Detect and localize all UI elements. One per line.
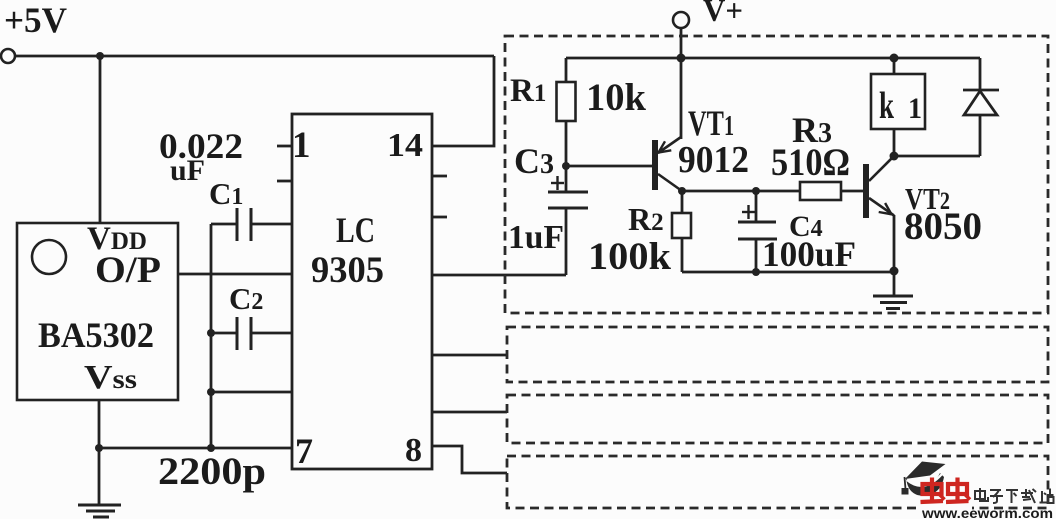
resistor R2 [672,213,691,238]
svg-text:14: 14 [387,127,423,164]
wire diode top [979,58,982,90]
wire BA5302 Vss down [98,400,101,505]
wire O/P to IC [178,273,292,276]
wire R2 bottom [681,238,684,272]
svg-text:uF: uF [170,154,205,187]
svg-text:1uF: 1uF [508,219,564,256]
C4 plus sign [742,205,755,219]
wire C3 bottom down [565,208,568,275]
wire k1 top [893,58,896,74]
svg-text:www.eeworm.com: www.eeworm.com [921,505,1053,519]
pin stub left 2 [277,180,292,183]
wire R2 top [681,191,684,213]
node V+ rail junction [677,54,686,63]
wire pin8 to box4 [432,446,507,473]
svg-text:510Ω: 510Ω [771,141,850,184]
wire collector node to diode [894,155,980,158]
svg-text:8050: 8050 [904,205,982,248]
wire node to IC mid [211,391,292,394]
wire V+ drop to pin14 [432,56,494,146]
terminal V+ [673,12,689,28]
resistor R1 [557,82,576,121]
node 2200p junction [207,444,215,452]
svg-text:9305: 9305 [311,250,384,291]
wire +5V top rail [15,55,494,58]
svg-text:BA5302: BA5302 [38,315,154,355]
wire IC out to C3 node [432,274,566,277]
pin stub right 1 [432,175,447,178]
logo chongchong characters [921,478,971,503]
svg-text:1: 1 [292,125,311,166]
wire R1 top [565,58,568,82]
svg-text:1: 1 [908,92,922,125]
logo white halo [916,498,972,510]
transistor VT1 [652,137,682,191]
ground (VT2) [873,296,913,309]
node VT1 collector junction [678,187,686,195]
ground (BA5302) [78,505,121,517]
terminal +5V [1,49,15,63]
dashed box 2 [507,327,1048,382]
BA5302 box [17,223,178,400]
svg-text:k: k [879,85,895,127]
dashed box 4 [507,456,1048,508]
capacitor C2 [237,317,251,350]
IC LC9305 box [292,114,432,469]
wire BA5302 VDD drop [99,56,102,223]
svg-text:9012: 9012 [678,139,749,181]
node C3 junction [562,162,570,170]
diode VD [963,90,999,115]
node +5V junction [96,52,104,60]
node mid junction [207,388,215,396]
wire VT2 emitter down [893,215,896,296]
wire R3 right to VT2 base [841,190,866,193]
node Vss junction [95,444,103,452]
svg-text:2200p: 2200p [158,450,266,493]
node junction dots [95,52,899,452]
svg-text:V+: V+ [703,0,743,28]
wire VT1 collector node right to R3 [682,190,800,193]
svg-text:LC: LC [336,210,375,250]
capacitor C4 [738,222,777,239]
pin stub right 2 [432,216,447,219]
pin 1 stub [277,145,292,148]
logo graduation cap [902,462,946,496]
wire C1 right [251,223,292,226]
transistor VT2 [863,156,894,218]
node C2 junction [207,329,215,337]
wire C2 left [211,332,237,335]
wire C3 node to VT1 base [566,165,652,168]
dashed main box [505,36,1048,313]
wire C1 left [211,223,237,226]
wire IC out to box3 [432,411,507,414]
wire V+ drop [680,28,683,139]
relay k1 [871,74,925,129]
wire diode bottom [979,115,982,156]
svg-text:100uF: 100uF [762,234,856,274]
wire top rail right [566,57,980,60]
svg-text:10k: 10k [586,76,646,119]
logo site name glyphs [975,488,1054,503]
wire k1 bottom [893,129,896,156]
wire C2 right [251,332,292,335]
wire Vss node to pin7 [99,447,292,450]
node VT2 emitter junction [890,267,899,276]
wire IC out to box2 [432,354,507,357]
wire bottom rail [682,271,894,274]
node C4 top junction [752,187,760,195]
BA5302 circle [32,240,66,274]
capacitor C1 [237,208,251,241]
wire cap bus vertical [210,224,213,448]
dashed box 3 [507,395,1048,443]
capacitor C3 [548,192,588,208]
node C4 bottom junction [752,268,760,276]
svg-text:100k: 100k [588,235,671,278]
node VT2 collector junction [890,152,899,161]
svg-text:8: 8 [405,432,422,469]
node k1 rail junction [890,54,899,63]
C3 plus sign [551,176,564,190]
wire R1 bottom to C3 [565,121,568,192]
wire C4 top [755,191,758,222]
wire C4 bottom [755,239,758,272]
svg-text:O/P: O/P [95,250,161,291]
svg-text:7: 7 [295,431,313,471]
resistor R3 [800,182,841,200]
svg-text:+5V: +5V [4,0,67,40]
svg-text:Vss: Vss [84,359,137,396]
